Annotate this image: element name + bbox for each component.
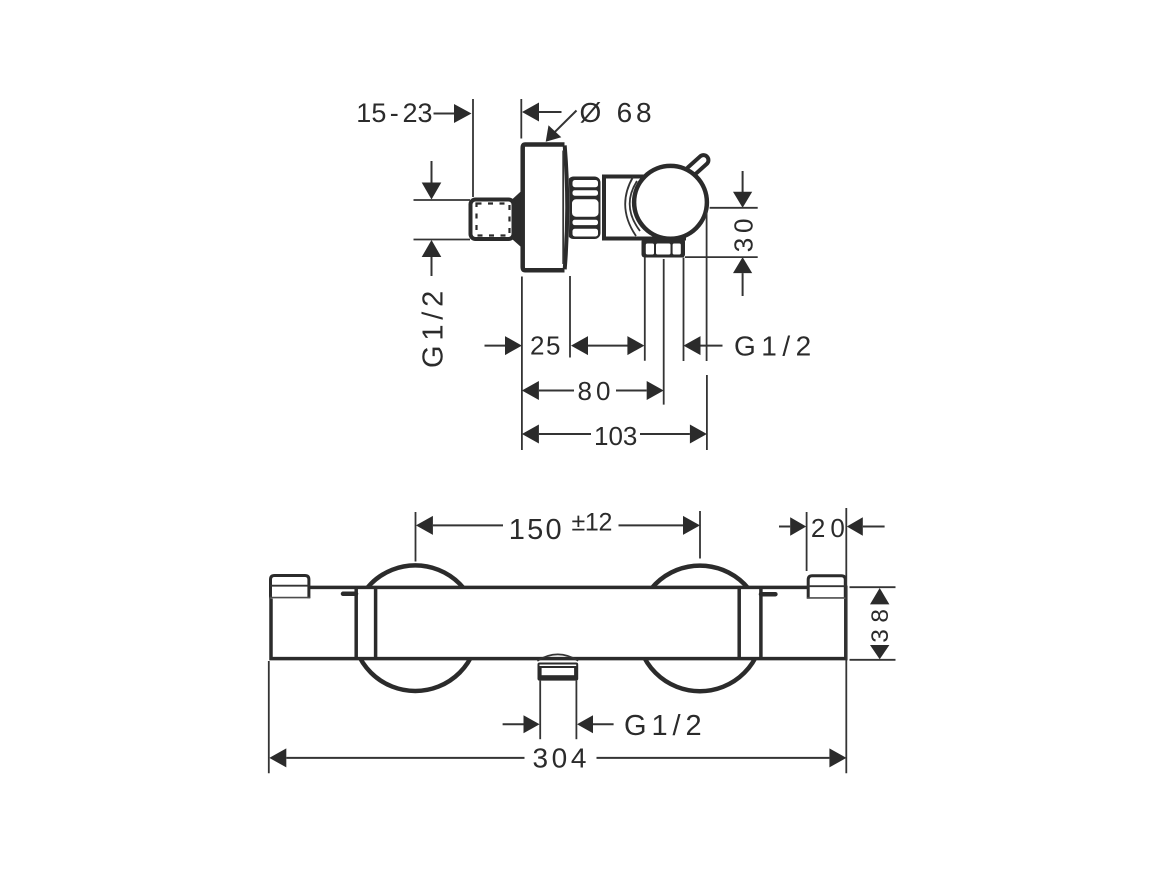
svg-text:103: 103 [594, 421, 637, 451]
left hook stub [343, 592, 356, 597]
left cap line 1 [354, 587, 358, 658]
dim 150 +-12 [416, 509, 701, 562]
left escutcheon tab [269, 576, 310, 599]
svg-text:G1/2: G1/2 [734, 331, 817, 362]
knob circle [634, 166, 707, 239]
right cap line 2 [759, 587, 763, 658]
dim 80 row [522, 376, 664, 406]
svg-text:G1/2: G1/2 [418, 286, 450, 368]
dim G1/2 wall pipe (vertical arrows left) [414, 161, 471, 368]
dim G1/2 outlet (front view) [503, 710, 707, 742]
svg-text:G1/2: G1/2 [624, 710, 706, 742]
dim diameter 68 [521, 97, 655, 142]
svg-text:38: 38 [867, 602, 894, 642]
left union circle [353, 565, 479, 691]
svg-text:±12: ±12 [572, 509, 613, 537]
thread nut [568, 177, 601, 240]
flange front-face extension [569, 276, 571, 358]
dim 25 row [485, 331, 645, 361]
svg-text:30: 30 [729, 214, 759, 253]
svg-text:Ø 68: Ø 68 [580, 97, 656, 128]
flange wall-face extension (left) [521, 277, 523, 451]
right escutcheon tab [807, 576, 847, 599]
dim 38 (vertical right) [850, 587, 896, 660]
dim 304 [269, 661, 847, 774]
right hook stub [761, 592, 775, 597]
outlet nut (front) [538, 663, 579, 681]
dim 20 [779, 508, 885, 773]
wall connector trapezoid [512, 191, 521, 247]
outlet pipe lines (front) [539, 681, 541, 740]
svg-text:304: 304 [533, 743, 591, 774]
svg-text:150: 150 [509, 514, 564, 546]
dim G1/2 outlet (side view) [684, 331, 817, 362]
svg-text:80: 80 [578, 376, 615, 406]
outlet pipe edge left / extension [644, 258, 646, 361]
right union circle [637, 566, 763, 692]
body housing [604, 177, 684, 239]
inner arcs [625, 177, 636, 236]
svg-text:20: 20 [811, 513, 850, 543]
handle pin [684, 153, 710, 178]
svg-text:25: 25 [530, 331, 562, 361]
outlet nut [642, 239, 686, 258]
knob front extension line [706, 210, 708, 361]
outlet dome [537, 654, 578, 660]
svg-text:15-23: 15-23 [356, 98, 432, 128]
dim 30 (vertical right) [685, 171, 759, 296]
dim 103 row [522, 421, 707, 451]
outlet centerline extension [663, 259, 665, 405]
dim 15-23 [356, 98, 473, 197]
wall connection box G1/2 [471, 200, 514, 240]
left cap line 2 [374, 587, 378, 658]
mixer bar body [271, 587, 846, 658]
outlet pipe edge right / extension [683, 258, 685, 362]
right cap line 1 [737, 587, 741, 658]
escutcheon flange [523, 145, 570, 271]
